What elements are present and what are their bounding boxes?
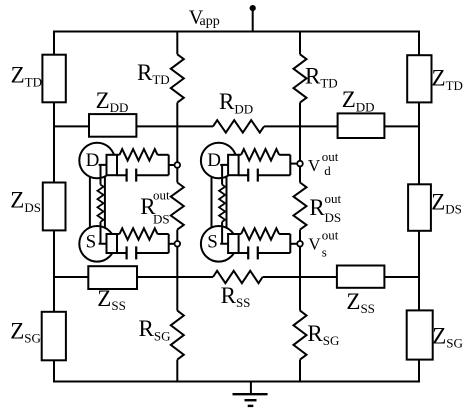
impedance Z_DD right box [338,113,385,138]
node Q2 source out [297,241,303,247]
resistor R_DS_out right [294,183,307,230]
wire Q1 S node stub [169,243,178,245]
transistor Q2 D circle [201,143,237,179]
wire DD row mid-right [264,125,338,127]
wire left rail lower [53,360,55,381]
transistor Q1 neck right [104,177,106,229]
svg-text:ZDD: ZDD [342,87,375,114]
wire Q1 S cap branch [117,252,169,254]
resistor R_SG right [294,311,307,360]
capacitor Q2 CS plate2 [257,246,259,259]
wire DD row mid-left [136,125,213,127]
wire right rail upper [418,31,420,57]
wire Q2 D res to bar [279,154,290,156]
node Vapp dot [250,5,256,11]
svg-text:S: S [207,232,218,253]
node Q1 drain out [175,162,181,168]
wire Q1 D res branch [117,154,120,156]
wire Q2 D node stub [290,163,300,165]
wire inner-right bottom stub [299,360,301,382]
capacitor Q2 CS plate1 [247,246,249,259]
transistor Q2 neck right [226,177,228,229]
wire Q2 D res branch [239,154,242,156]
wire Q2 D cap branch [239,174,291,176]
svg-text:DS: DS [325,210,342,225]
wire Q2 S internal [220,222,228,244]
svg-text:ZSG: ZSG [432,324,463,351]
svg-text:S: S [86,232,97,253]
resistor R_TD right [294,54,307,102]
impedance Z_DS right box [408,184,431,231]
wire inner-left mid lower [176,230,178,244]
wire inner-right lower [299,244,301,311]
wire right rail lower [418,360,420,382]
wire right rail mid1 [418,102,420,185]
wire Q1 D bar [168,155,170,175]
wire inner-left top stub [176,31,178,55]
resistor Q2 RS [241,228,279,239]
impedance Z_TD right box [407,55,431,102]
wire DD row left [53,125,90,127]
resistor Q1 RD [120,149,158,160]
wire SS row left [53,276,89,278]
impedance Z_DD left box [89,114,136,137]
impedance Z_SG right box [407,310,433,359]
capacitor Q1 CD plate1 [125,169,127,182]
wire SS row mid-left [137,276,213,278]
transistor Q2 S circle [201,226,237,262]
wire Q1 D node stub [169,164,178,166]
node Vapp stub [252,8,254,31]
svg-text:out: out [322,228,339,243]
svg-text:RSG: RSG [307,321,339,348]
impedance Z_DS left box [43,183,66,231]
resistor R_DS_out left [171,183,184,230]
wire inner-left lower [176,244,178,311]
capacitor Q2 CD plate2 [257,169,259,182]
svg-text:RTD: RTD [305,63,338,90]
capacitor Q1 CS plate2 [135,246,137,259]
svg-text:d: d [324,163,331,178]
svg-text:ZSG: ZSG [10,319,41,346]
resistor R_TD left [171,54,184,102]
wire inner-right mid upper [299,164,301,183]
wire bottom rail [53,381,420,383]
wire Q1 S res to bar [158,233,169,235]
wire SS row right [384,276,420,278]
ground bar1 [233,393,268,395]
svg-text:ZSS: ZSS [346,289,375,316]
wire inner-left bottom stub [176,360,178,382]
svg-text:D: D [86,150,100,171]
wire top rail [53,31,420,33]
wire left rail mid1 [53,102,55,183]
wire inner-right mid lower [299,230,301,244]
ground bar3 [248,405,254,407]
svg-text:out: out [325,191,342,206]
wire Q2 S node stub [290,243,300,245]
wire Q2 S res branch [239,233,242,235]
wire Q1 S bar [168,234,170,253]
wire inner-right top stub [299,31,301,55]
node Q1 source out [175,241,181,247]
wire Q1 D cap branch [117,174,169,176]
impedance Z_SG left box [42,312,66,361]
svg-text:RSS: RSS [221,283,251,310]
contact Q1 D pad [107,155,118,175]
svg-text:V: V [308,235,321,254]
capacitor Q1 CS plate1 [125,246,127,259]
svg-text:V: V [308,156,321,175]
svg-text:out: out [322,149,339,164]
resistor Q1 RS [120,228,158,239]
svg-text:D: D [207,150,221,171]
resistor Q2 RD [241,149,279,160]
svg-text:ZDD: ZDD [96,88,129,115]
ground bar2 [245,399,257,401]
impedance Z_SS right box [337,266,385,288]
wire Q1 S internal [99,222,107,244]
wire SS row mid-right [263,276,337,278]
wire inner-right upper [299,103,301,164]
wire DD row right [384,125,420,127]
svg-text:ZDS: ZDS [10,188,41,215]
svg-text:RDD: RDD [219,89,253,116]
resistor Q1 channel [98,185,104,222]
svg-text:out: out [153,188,170,203]
transistor Q1 S circle [79,226,115,262]
capacitor Q2 CD plate1 [247,169,249,182]
impedance Z_TD left box [42,55,65,103]
svg-text:RTD: RTD [137,60,170,87]
svg-text:RSG: RSG [139,316,171,343]
svg-text:app: app [200,14,220,29]
impedance Z_SS left box [88,266,137,289]
wire Q2 D internal [220,165,228,185]
wire inner-left mid upper [176,165,178,183]
wire Q2 S cap branch [239,252,291,254]
capacitor Q1 CD plate2 [135,169,137,182]
wire Q1 D internal [99,165,107,185]
svg-text:ZTD: ZTD [432,66,463,93]
wire Q1 D res to bar [158,154,169,156]
contact Q1 S pad [107,234,118,253]
svg-text:ZSS: ZSS [97,286,126,313]
wire right rail mid2 [418,231,420,311]
resistor R_DD [213,120,264,132]
wire Q1 S res branch [117,233,120,235]
node Q2 drain out [297,161,303,167]
wire Q2 S bar [289,234,291,253]
transistor Q1 D circle [79,143,115,179]
resistor Q2 channel [219,185,225,222]
svg-text:R: R [309,195,325,220]
resistor R_SS [213,271,263,283]
contact Q2 S pad [228,234,239,253]
wire Q2 S res to bar [279,233,290,235]
contact Q2 D pad [228,155,239,175]
wire left rail mid2 [53,230,55,312]
ground stub [250,382,252,395]
svg-text:ZDS: ZDS [431,189,462,216]
resistor R_SG left [171,311,184,360]
svg-text:DS: DS [153,212,170,227]
transistor Q1 neck left [89,177,91,229]
wire left rail upper [53,31,55,56]
svg-text:s: s [322,245,327,260]
transistor Q2 neck left [211,177,213,229]
wire Q2 D bar [289,155,291,175]
svg-text:ZTD: ZTD [11,63,42,90]
wire inner-left upper [176,103,178,165]
